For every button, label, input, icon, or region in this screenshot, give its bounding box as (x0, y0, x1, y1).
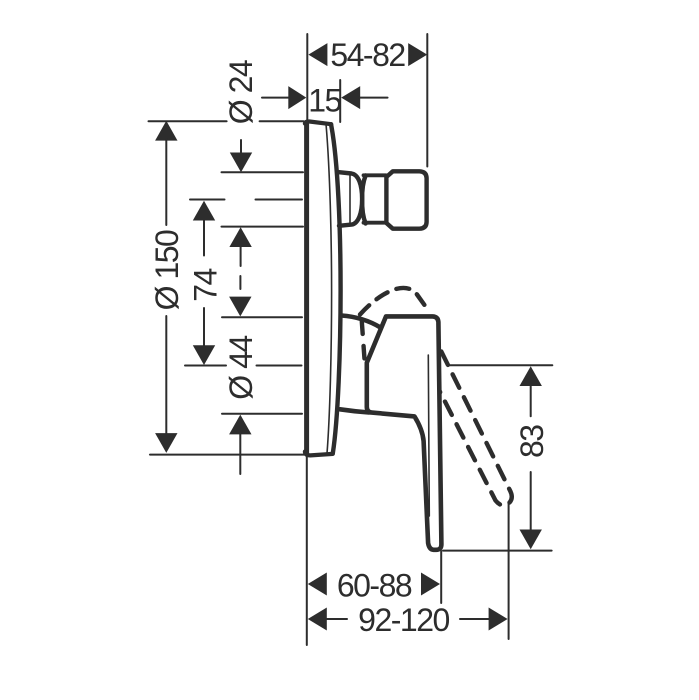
wire: extension line spigot bottom (y=226.5) (222, 226, 304, 228)
wire: extension line top left (y=121) (149, 120, 227, 122)
dimension D44 vertical (229, 297, 251, 317)
dimension 83 vertical (520, 366, 542, 386)
wire: extension line dashed lever tip down (x=508.5) (508, 504, 510, 639)
wire: extension line stop-valve cap right (x=427) (426, 34, 428, 167)
dimension 74 vertical (193, 201, 215, 221)
wire: extension line sleeve bottom (y=413.5) (222, 413, 302, 415)
svg-text:92-120: 92-120 (358, 602, 449, 638)
lever raised, short vertical dashes at body front (362, 322, 365, 361)
svg-text:Ø 150: Ø 150 (149, 230, 185, 310)
spigot flange curve (362, 176, 365, 224)
wire: extension line sleeve top (y=317) (222, 316, 302, 318)
svg-text:83: 83 (514, 425, 550, 458)
dimension D24 leader arrows (240, 140, 242, 154)
wire: handle centre line (y=365.5) (185, 365, 226, 367)
wire: extension line plate back (x=340) (339, 80, 341, 122)
dimension 15 row (262, 97, 289, 99)
escutcheon plate right edge (bulged) (331, 124, 341, 453)
escutcheon plate front face (304, 123, 309, 454)
svg-text:60-88: 60-88 (337, 568, 412, 604)
wire: extension line plate bottom (y=454.5) (150, 454, 304, 456)
spigot section 1 inner line (349, 176, 351, 223)
lever raised, main dashed outline down-right (439, 352, 512, 506)
escutcheon plate bottom edge (305, 452, 333, 456)
svg-text:15: 15 (308, 83, 341, 119)
escutcheon plate inner thin line (326, 124, 332, 454)
svg-text:Ø 24: Ø 24 (223, 60, 259, 124)
handle inner thin line (428, 355, 429, 516)
dimension 54-82 row (308, 43, 327, 66)
svg-text:54-82: 54-82 (330, 37, 405, 73)
escutcheon cone top arc (342, 316, 381, 328)
svg-text:Ø 44: Ø 44 (223, 336, 259, 400)
spigot end cap (386, 171, 426, 228)
dimension D150 vertical (155, 121, 177, 141)
wire: extension line spigot top (y=172) (222, 171, 304, 173)
spigot cylinder (364, 173, 387, 177)
handle body and lever (solid) (367, 316, 442, 549)
spigot section 1 (D-shape at plate) (339, 172, 362, 226)
wire: spigot centre line (y=199.5) (190, 199, 225, 201)
escutcheon cone bottom arc (340, 409, 369, 412)
wire: extension line plate front bottom (x=306.8) (306, 457, 308, 645)
dimension 60-88 row (308, 573, 327, 596)
dimension 92-120 row (308, 608, 327, 631)
lever in raised position (dashed), upper arc (360, 288, 427, 315)
svg-text:74: 74 (188, 269, 224, 302)
escutcheon plate top edge (305, 121, 331, 124)
wire: extension line plate front top (x=307) (306, 34, 308, 120)
wire: extension line solid lever tip down (x=441) (440, 551, 442, 603)
wire: extension line lever tip (y=550.5) (443, 550, 552, 552)
